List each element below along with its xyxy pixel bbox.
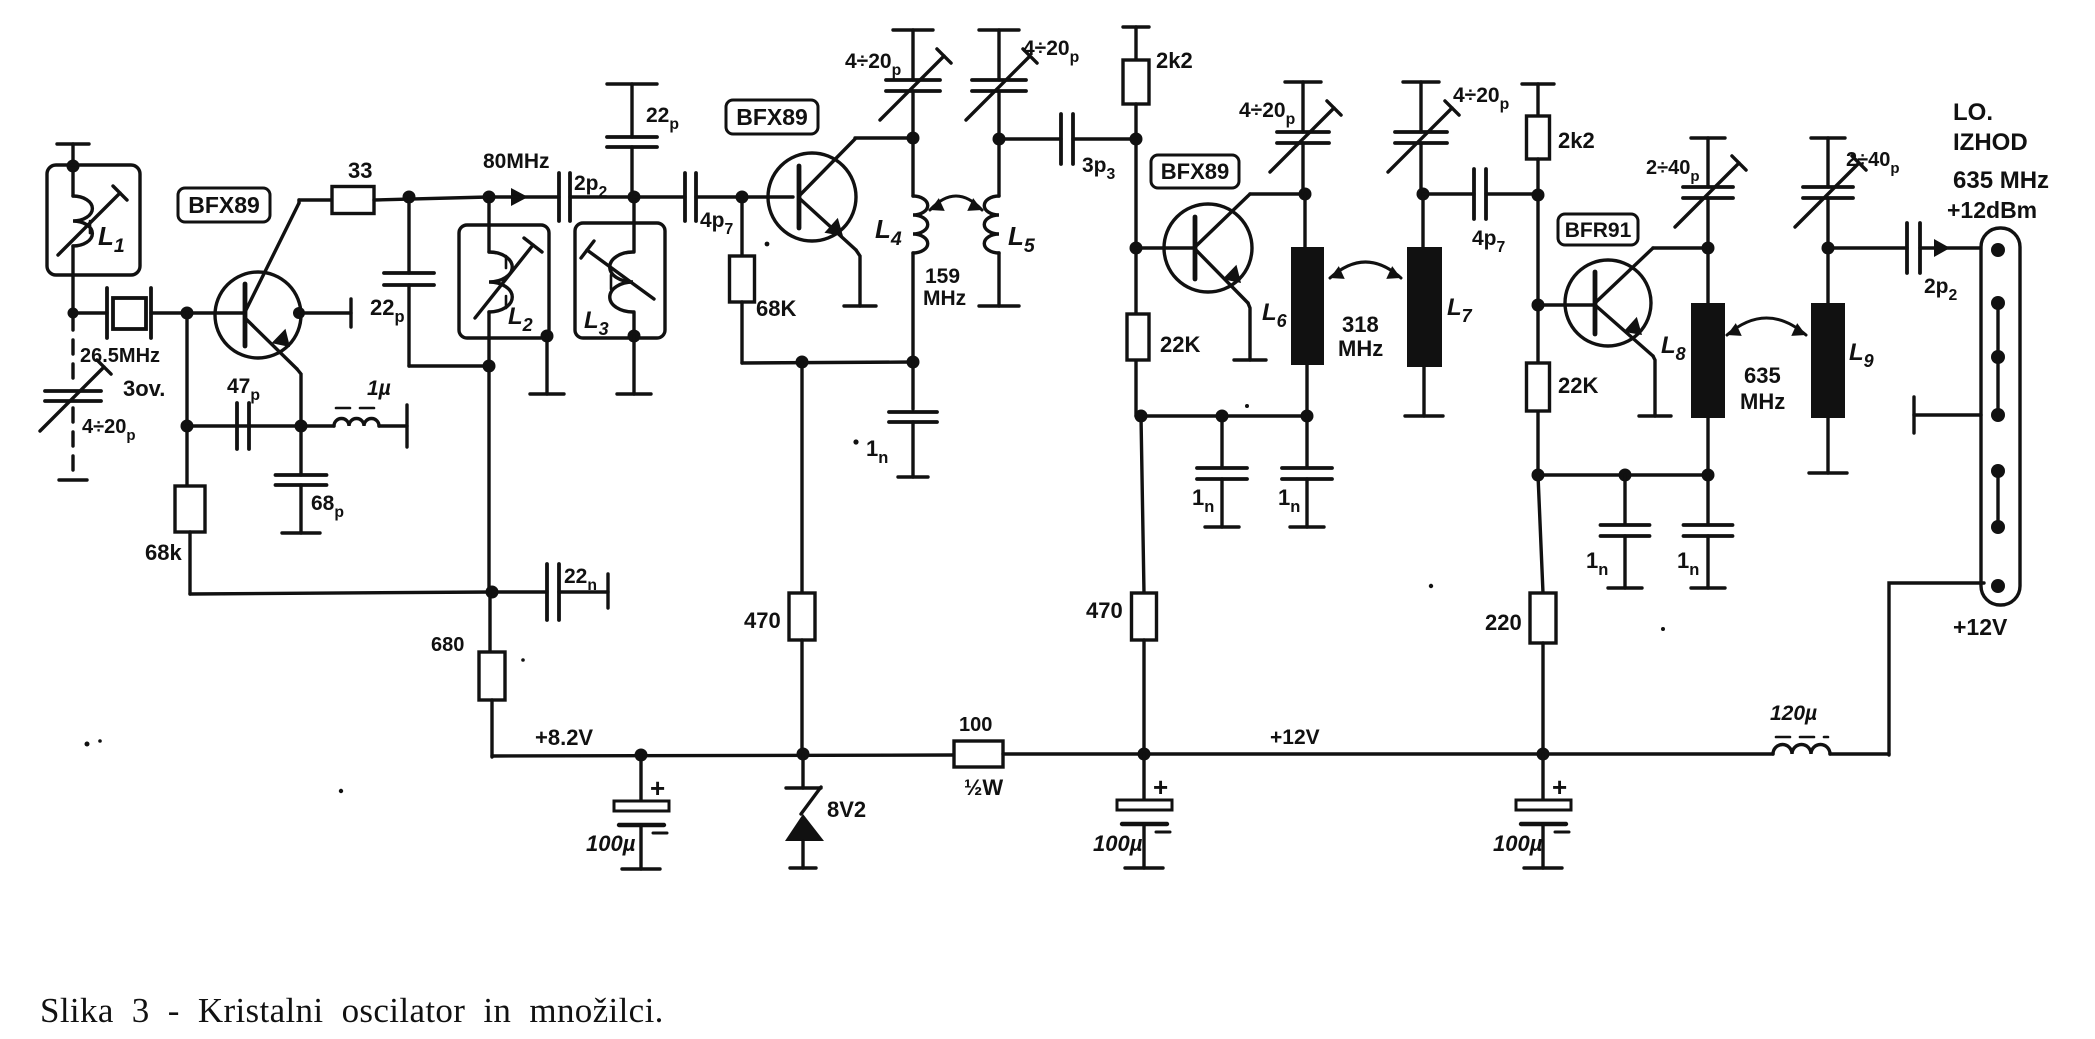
svg-text:26.5MHz: 26.5MHz (80, 345, 160, 367)
svg-text:159: 159 (925, 265, 960, 288)
svg-text:318: 318 (1342, 312, 1379, 337)
svg-text:635: 635 (1744, 363, 1781, 388)
svg-text:470: 470 (744, 608, 781, 633)
svg-text:100: 100 (959, 714, 992, 736)
svg-text:635 MHz: 635 MHz (1953, 167, 2049, 194)
svg-text:2k2: 2k2 (1156, 48, 1193, 73)
svg-text:100µ: 100µ (586, 831, 636, 856)
svg-text:Slika 3 - Kristalni oscilator: Slika 3 - Kristalni oscilator in množilc… (40, 991, 664, 1030)
svg-text:½W: ½W (964, 775, 1003, 800)
svg-text:100µ: 100µ (1493, 831, 1543, 856)
svg-text:120µ: 120µ (1770, 702, 1817, 725)
svg-text:33: 33 (348, 158, 372, 183)
svg-text:68k: 68k (145, 540, 182, 565)
svg-text:100µ: 100µ (1093, 831, 1143, 856)
svg-text:IZHOD: IZHOD (1953, 129, 2028, 156)
svg-text:BFX89: BFX89 (736, 104, 808, 130)
svg-text:+12dBm: +12dBm (1947, 197, 2037, 223)
svg-text:+: + (1552, 772, 1567, 802)
svg-text:8V2: 8V2 (827, 797, 866, 822)
svg-text:MHz: MHz (1338, 336, 1383, 361)
svg-text:22K: 22K (1558, 373, 1598, 398)
svg-text:+12V: +12V (1953, 614, 2008, 640)
svg-text:BFX89: BFX89 (1161, 159, 1229, 184)
svg-text:220: 220 (1485, 610, 1522, 635)
svg-text:+: + (1153, 772, 1168, 802)
svg-text:680: 680 (431, 634, 464, 656)
svg-text:BFR91: BFR91 (1565, 219, 1632, 242)
svg-text:80MHz: 80MHz (483, 150, 550, 173)
svg-text:3ov.: 3ov. (123, 376, 165, 401)
svg-text:470: 470 (1086, 598, 1123, 623)
svg-text:BFX89: BFX89 (188, 192, 260, 218)
svg-text:LO.: LO. (1953, 99, 1993, 126)
svg-text:MHz: MHz (1740, 389, 1785, 414)
svg-text:68K: 68K (756, 296, 796, 321)
svg-text:2k2: 2k2 (1558, 128, 1595, 153)
svg-text:1µ: 1µ (367, 377, 391, 400)
svg-text:MHz: MHz (923, 287, 966, 310)
svg-text:+: + (650, 773, 665, 803)
svg-text:22K: 22K (1160, 332, 1200, 357)
svg-text:+8.2V: +8.2V (535, 725, 593, 750)
svg-text:+12V: +12V (1270, 726, 1320, 749)
